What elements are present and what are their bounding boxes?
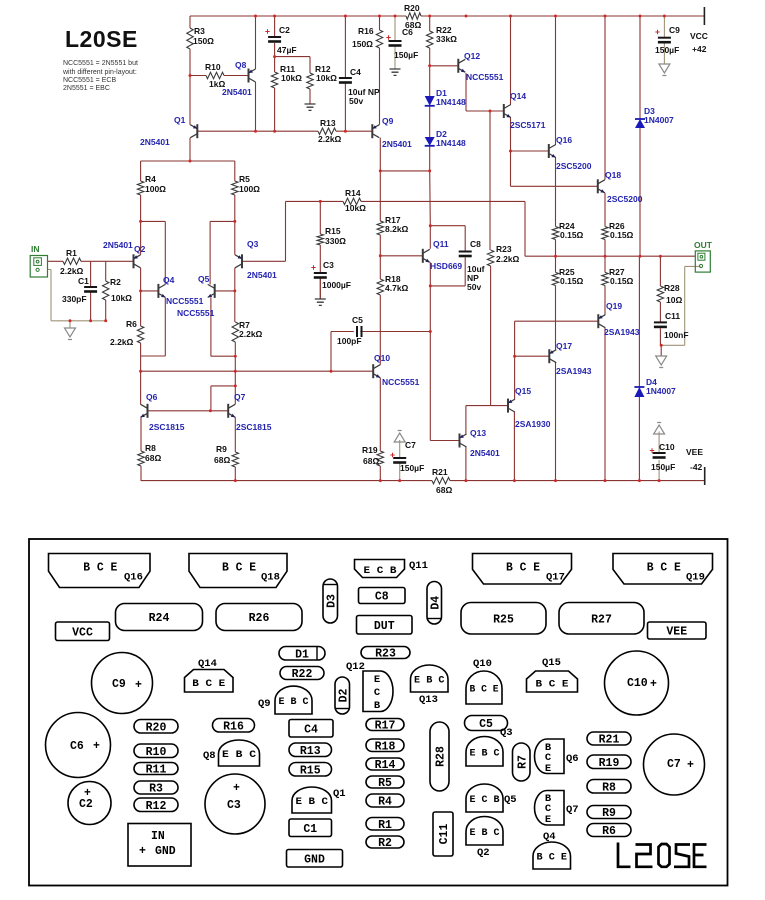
- svg-text:2.2kΩ: 2.2kΩ: [318, 134, 342, 144]
- wire R26-R27 column: [604, 240, 606, 315]
- transistor Q16: [549, 135, 592, 171]
- junction (255.5,131.2): [254, 130, 257, 133]
- junction (659.1,480.6): [658, 479, 661, 482]
- svg-text:R14: R14: [345, 188, 361, 198]
- wire Q11 base wire: [380, 255, 423, 257]
- wire input gnd bus: [48, 270, 106, 321]
- wire Q4 cascode link: [141, 221, 166, 284]
- svg-text:B C E: B C E: [506, 562, 540, 575]
- resistor R14: [343, 198, 361, 204]
- svg-text:VEE: VEE: [686, 447, 703, 457]
- wire R24-R25 column: [555, 240, 557, 350]
- PCB R21: [587, 732, 631, 747]
- svg-text:R9: R9: [216, 444, 227, 454]
- transistor Q4: [158, 275, 203, 306]
- junction (210.4,410.8): [209, 409, 212, 412]
- PCB D4 band: [428, 618, 442, 620]
- capacitor C3: [314, 272, 327, 274]
- svg-text:R8: R8: [602, 781, 616, 794]
- wire D4 branch: [638, 256, 640, 480]
- svg-text:NCC5551: NCC5551: [382, 377, 420, 387]
- svg-text:C3: C3: [323, 260, 334, 270]
- terminal VCC: [690, 7, 708, 54]
- wire C8 links: [430, 226, 465, 286]
- connector IN: [30, 244, 47, 277]
- transistor Q6: [141, 392, 185, 432]
- PCB Q9 pad: [258, 686, 312, 714]
- PCB VCC: [56, 622, 110, 641]
- wire VCC rail: [190, 15, 704, 17]
- transistor Q12: [458, 51, 503, 82]
- svg-text:Q18: Q18: [605, 170, 621, 180]
- PCB R23: [361, 647, 410, 661]
- svg-text:D1: D1: [295, 648, 309, 661]
- svg-text:50v: 50v: [349, 96, 363, 106]
- junction (466,16): [465, 15, 468, 18]
- svg-text:2N5401: 2N5401: [470, 448, 500, 458]
- svg-text:R4: R4: [145, 174, 156, 184]
- PCB IN/GND input pads: [128, 824, 191, 867]
- junction (555.5,16): [554, 15, 557, 18]
- svg-text:Q5: Q5: [504, 794, 517, 806]
- diode D1: [425, 88, 466, 107]
- svg-text:NCC5551: NCC5551: [177, 308, 215, 318]
- resistor R16: [376, 30, 382, 48]
- svg-text:Q14: Q14: [510, 91, 526, 101]
- svg-text:+: +: [93, 740, 100, 753]
- svg-text:68Ω: 68Ω: [145, 453, 161, 463]
- svg-text:Q16: Q16: [556, 135, 572, 145]
- svg-text:+42: +42: [692, 44, 707, 54]
- svg-text:NCC5551: NCC5551: [466, 72, 504, 82]
- svg-text:Q16: Q16: [124, 572, 143, 584]
- svg-text:C9: C9: [669, 25, 680, 35]
- svg-text:E: E: [545, 763, 551, 775]
- wire R12 branch: [309, 57, 311, 104]
- svg-text:R10: R10: [146, 746, 167, 759]
- svg-text:2.2kΩ: 2.2kΩ: [110, 337, 134, 347]
- wire Q6 emitter/R8: [140, 417, 142, 480]
- svg-text:Q2: Q2: [477, 847, 490, 859]
- svg-text:R20: R20: [404, 3, 420, 13]
- ground (chassis): [659, 64, 670, 76]
- svg-text:Q6: Q6: [566, 753, 579, 765]
- svg-text:R21: R21: [599, 734, 620, 747]
- svg-text:+: +: [84, 787, 91, 800]
- svg-text:C11: C11: [438, 824, 451, 845]
- junction (345.4,131.2): [344, 130, 347, 133]
- junction (514.4,480.6): [513, 479, 516, 482]
- svg-text:1000µF: 1000µF: [322, 280, 351, 290]
- wire x430 to Q13 base: [430, 332, 459, 441]
- svg-text:330Ω: 330Ω: [325, 236, 346, 246]
- svg-text:E: E: [374, 674, 380, 686]
- svg-text:C6: C6: [70, 740, 84, 753]
- wire Q11 collector/emitter: [429, 226, 431, 286]
- PCB D2: [335, 677, 350, 714]
- PCB logo L20SE: [618, 843, 707, 867]
- PCB R4 pad: [366, 794, 404, 809]
- svg-text:D2: D2: [337, 689, 350, 703]
- svg-text:150Ω: 150Ω: [352, 39, 373, 49]
- resistor R4: [137, 181, 143, 195]
- svg-text:R12: R12: [146, 800, 167, 813]
- PCB Q3 pad: [466, 727, 513, 766]
- junction (555.5,480.6): [554, 479, 557, 482]
- wire R17-R18 column: [379, 171, 381, 365]
- svg-text:Q1: Q1: [174, 115, 186, 125]
- svg-text:B C E: B C E: [470, 684, 499, 696]
- svg-text:E B C: E B C: [222, 749, 257, 761]
- PCB R16: [213, 719, 255, 734]
- ground: [390, 69, 401, 75]
- resistor R26: [602, 227, 608, 240]
- junction (234.8,290.9): [233, 289, 236, 292]
- junction (510.5,151): [509, 150, 512, 153]
- wire mirror jog: [211, 386, 235, 411]
- svg-text:NCC5551 = ECB: NCC5551 = ECB: [63, 77, 116, 84]
- svg-text:C9: C9: [112, 678, 126, 691]
- svg-text:C7: C7: [405, 440, 416, 450]
- PCB Q7 pad: [535, 791, 579, 827]
- wire bias column x430: [429, 171, 432, 226]
- PCB R28: [430, 722, 449, 791]
- wire R4 column: [140, 161, 142, 255]
- svg-text:Q17: Q17: [556, 341, 572, 351]
- svg-text:68Ω: 68Ω: [214, 455, 230, 465]
- PCB Q5 pad: [466, 784, 517, 812]
- svg-text:Q18: Q18: [261, 572, 280, 584]
- svg-text:+: +: [650, 678, 657, 691]
- note text: [62, 60, 138, 92]
- PCB C3: [205, 774, 265, 834]
- PCB R8 pad: [587, 780, 631, 795]
- svg-text:100pF: 100pF: [337, 336, 362, 346]
- resistor R15: [317, 234, 323, 245]
- capacitor C11: [654, 321, 667, 323]
- PCB R15: [289, 763, 332, 778]
- junction (235.3,385.9): [234, 384, 237, 387]
- wire R10 leads: [190, 75, 249, 77]
- wire VEE rail: [141, 480, 705, 482]
- PCB Q15 pad: [527, 657, 578, 692]
- wire Q14 emitter / driver bus: [511, 118, 598, 187]
- svg-text:8.2kΩ: 8.2kΩ: [385, 224, 409, 234]
- resistor R1: [63, 258, 81, 264]
- svg-text:2SC1815: 2SC1815: [149, 422, 185, 432]
- resistor R24: [552, 227, 558, 240]
- wire R11 branch: [274, 57, 276, 132]
- capacitor C4: [339, 77, 352, 79]
- svg-text:R3: R3: [194, 26, 205, 36]
- svg-text:Q9: Q9: [258, 698, 271, 710]
- junction (510.5,16): [509, 15, 512, 18]
- wire Q16 branch: [555, 16, 557, 227]
- wire Q3 collector chain: [234, 268, 236, 322]
- svg-text:B C E: B C E: [537, 852, 568, 864]
- PCB R24: [116, 604, 203, 631]
- ground (chassis): [394, 431, 405, 443]
- resistor R11: [271, 72, 277, 88]
- PCB R17: [366, 719, 404, 733]
- wire Q5 cascode link: [210, 221, 235, 284]
- svg-text:R19: R19: [362, 445, 378, 455]
- wire Q6/Q7 base bus: [148, 410, 229, 412]
- wire C7 branch: [399, 440, 401, 481]
- PCB GND pad: [287, 850, 343, 868]
- resistor R23: [487, 250, 493, 266]
- wire C2-R12 link: [275, 56, 310, 58]
- wire Q7 collector: [234, 386, 236, 404]
- svg-text:Q13: Q13: [419, 694, 438, 706]
- svg-text:R14: R14: [375, 759, 396, 772]
- PCB R26: [216, 604, 302, 631]
- wire Q7 emitter/R9: [234, 417, 236, 480]
- svg-text:C1: C1: [303, 823, 317, 836]
- ground (chassis): [65, 328, 76, 340]
- svg-text:R9: R9: [602, 807, 616, 820]
- wire driver PNP bus: [515, 321, 599, 399]
- junction (661.2,345.3): [660, 344, 663, 347]
- wire R7 jog: [211, 297, 235, 356]
- svg-text:B C E: B C E: [222, 562, 256, 575]
- PCB D1 band: [316, 647, 318, 660]
- svg-text:B C E: B C E: [192, 678, 225, 690]
- junction (234.8,221.4): [233, 220, 236, 223]
- svg-text:with different pin-layout:: with different pin-layout:: [62, 69, 137, 76]
- PCB package Q16: [49, 554, 151, 588]
- resistor R10: [206, 72, 224, 78]
- svg-text:R16: R16: [358, 26, 374, 36]
- capacitor C5: [356, 326, 358, 337]
- PCB R20: [134, 720, 178, 735]
- capacitor C1: [84, 286, 97, 288]
- svg-text:0.15Ω: 0.15Ω: [610, 276, 634, 286]
- svg-text:150µF: 150µF: [400, 463, 424, 473]
- svg-text:R1: R1: [66, 248, 77, 258]
- svg-text:R3: R3: [149, 783, 163, 796]
- wire C1 branch: [90, 261, 92, 321]
- svg-text:B C E: B C E: [83, 562, 117, 575]
- wire R7 to mirror: [234, 356, 236, 386]
- svg-text:Q12: Q12: [346, 661, 365, 673]
- transistor Q2: [103, 240, 146, 268]
- wire R15/C3 branch: [319, 201, 321, 299]
- wire C2 branch: [274, 16, 276, 57]
- svg-text:+: +: [135, 679, 142, 692]
- wire Q15 collector: [513, 412, 515, 481]
- wire Q13 emitter link: [466, 406, 508, 434]
- transistor Q10: [373, 353, 419, 387]
- svg-text:33kΩ: 33kΩ: [436, 34, 457, 44]
- svg-text:E C B: E C B: [364, 565, 398, 577]
- junction (430.3,225.7): [429, 224, 432, 227]
- svg-text:2N5551 = EBC: 2N5551 = EBC: [63, 85, 110, 92]
- PCB R27: [559, 603, 644, 635]
- PCB Q4 pad: [533, 831, 571, 869]
- svg-text:R19: R19: [599, 757, 620, 770]
- PCB R7 pad: [513, 743, 531, 781]
- capacitor C7: [393, 457, 406, 459]
- PCB C9: [92, 653, 153, 714]
- svg-text:R17: R17: [375, 720, 396, 733]
- svg-text:68Ω: 68Ω: [363, 456, 379, 466]
- wire Q18 branch: [604, 16, 606, 227]
- junction (430.3,331.5): [429, 330, 432, 333]
- svg-text:DUT: DUT: [374, 620, 395, 633]
- capacitor C6: [389, 40, 402, 42]
- svg-text:4.7kΩ: 4.7kΩ: [385, 283, 409, 293]
- svg-text:10Ω: 10Ω: [666, 295, 682, 305]
- junction (465.9,480.6): [464, 479, 467, 482]
- svg-text:-42: -42: [690, 462, 703, 472]
- PCB R25: [461, 603, 546, 635]
- svg-text:B C E: B C E: [536, 679, 569, 691]
- svg-text:R15: R15: [325, 226, 341, 236]
- svg-text:L20SE: L20SE: [65, 26, 138, 52]
- transistor Q1: [140, 115, 197, 147]
- svg-text:R20: R20: [146, 721, 167, 734]
- resistor R28: [657, 286, 663, 302]
- svg-text:E C B: E C B: [470, 794, 501, 806]
- wire Q17 collector: [555, 363, 557, 481]
- junction (190,75.5): [189, 74, 192, 77]
- resistor R22: [427, 31, 433, 48]
- ground: [315, 299, 326, 305]
- resistor R27: [602, 272, 608, 285]
- svg-text:C: C: [374, 687, 381, 699]
- resistor R5: [232, 181, 238, 195]
- wire Q14 collector: [510, 16, 512, 105]
- resistor R25: [552, 272, 558, 285]
- svg-text:R28: R28: [664, 283, 680, 293]
- svg-text:OUT: OUT: [694, 240, 713, 250]
- wire D3 branch: [639, 16, 641, 256]
- svg-text:2.2kΩ: 2.2kΩ: [60, 266, 84, 276]
- svg-text:R18: R18: [375, 740, 396, 753]
- PCB R9 pad: [587, 806, 631, 821]
- svg-text:Q15: Q15: [542, 657, 561, 669]
- svg-text:NCC5551 = 2N5551 but: NCC5551 = 2N5551 but: [63, 60, 138, 67]
- junction (105.7,320.8): [104, 319, 107, 322]
- svg-text:C5: C5: [479, 718, 493, 731]
- wire R16 branch: [379, 16, 381, 125]
- wire D1 D2 chain: [429, 66, 431, 171]
- PCB C2: [68, 782, 111, 825]
- PCB Q8 pad: [203, 740, 260, 766]
- wire Q10 emitter/R19: [379, 378, 381, 481]
- svg-text:2SA1943: 2SA1943: [556, 366, 592, 376]
- transistor Q8: [222, 60, 256, 97]
- svg-text:150µF: 150µF: [651, 462, 675, 472]
- svg-text:Q19: Q19: [686, 572, 705, 584]
- svg-text:50v: 50v: [467, 282, 481, 292]
- svg-text:D3: D3: [325, 594, 338, 608]
- svg-text:R28: R28: [435, 746, 448, 767]
- wire input pair bus: [141, 160, 235, 162]
- svg-text:+: +: [687, 759, 694, 772]
- svg-text:C4: C4: [304, 723, 318, 736]
- svg-text:150µF: 150µF: [655, 45, 679, 55]
- junction (514.6,356.2): [513, 355, 516, 358]
- junction (640,256.2): [639, 255, 642, 258]
- wire Q5 base wire: [215, 290, 235, 292]
- svg-text:R8: R8: [145, 443, 156, 453]
- svg-text:Q7: Q7: [234, 392, 246, 402]
- PCB R11: [134, 763, 178, 777]
- svg-text:C3: C3: [227, 799, 241, 812]
- svg-text:Q11: Q11: [409, 560, 428, 572]
- PCB R19: [587, 755, 631, 770]
- PCB R12: [134, 798, 178, 813]
- svg-text:150Ω: 150Ω: [193, 36, 214, 46]
- PCB C6: [46, 713, 111, 778]
- svg-text:B: B: [374, 700, 381, 712]
- svg-text:GND: GND: [304, 853, 325, 866]
- wire C5 left link: [331, 332, 354, 372]
- svg-text:E B C: E B C: [470, 747, 501, 759]
- svg-text:E B C: E B C: [414, 675, 445, 687]
- wire C4 branch: [344, 16, 346, 131]
- wire input bus y131: [197, 130, 372, 132]
- transistor Q18: [598, 170, 643, 204]
- svg-text:C4: C4: [350, 67, 361, 77]
- svg-text:1N4007: 1N4007: [644, 115, 674, 125]
- wire C9 branch: [663, 16, 665, 64]
- PCB D3 band: [324, 584, 338, 586]
- svg-text:R23: R23: [496, 244, 512, 254]
- junction (70,320.8): [69, 319, 72, 322]
- svg-text:NCC5551: NCC5551: [166, 296, 204, 306]
- junction (429.7,170.9): [428, 169, 431, 172]
- svg-text:Q11: Q11: [433, 239, 449, 249]
- junction (380.3,170.9): [379, 169, 382, 172]
- svg-text:1N4148: 1N4148: [436, 138, 466, 148]
- svg-text:R21: R21: [432, 467, 448, 477]
- svg-text:R13: R13: [320, 118, 336, 128]
- junction (555.5,256.2): [554, 255, 557, 258]
- transistor Q13: [460, 428, 501, 458]
- wire Q12 emitter to Q14 base: [466, 73, 504, 111]
- svg-text:C2: C2: [279, 25, 290, 35]
- PCB board outline: [29, 539, 728, 886]
- svg-text:R22: R22: [292, 668, 313, 681]
- resistor R12: [307, 73, 313, 89]
- capacitor C2: [268, 36, 281, 38]
- transistor Q11: [423, 239, 463, 271]
- ground (chassis): [654, 423, 665, 435]
- PCB D1: [279, 647, 325, 662]
- svg-text:1N4148: 1N4148: [436, 97, 466, 107]
- PCB D4: [427, 582, 442, 625]
- svg-text:Q4: Q4: [163, 275, 175, 285]
- svg-text:R27: R27: [591, 613, 612, 626]
- svg-text:Q19: Q19: [606, 301, 622, 311]
- PCB R1 pad: [366, 818, 404, 832]
- PCB Q1 pad: [292, 787, 346, 813]
- wire C10 branch: [658, 432, 660, 481]
- svg-text:47µF: 47µF: [277, 45, 297, 55]
- PCB Q6 pad: [535, 739, 579, 775]
- PCB C5 pad: [465, 716, 508, 732]
- junction (430.3,285.9): [429, 284, 432, 287]
- transistor Q14: [504, 91, 546, 130]
- junction (235.3,371.2): [234, 370, 237, 373]
- svg-text:Q12: Q12: [464, 51, 480, 61]
- svg-text:R1: R1: [378, 819, 392, 832]
- svg-text:2N5401: 2N5401: [140, 137, 170, 147]
- wire feedback bus: [286, 201, 526, 261]
